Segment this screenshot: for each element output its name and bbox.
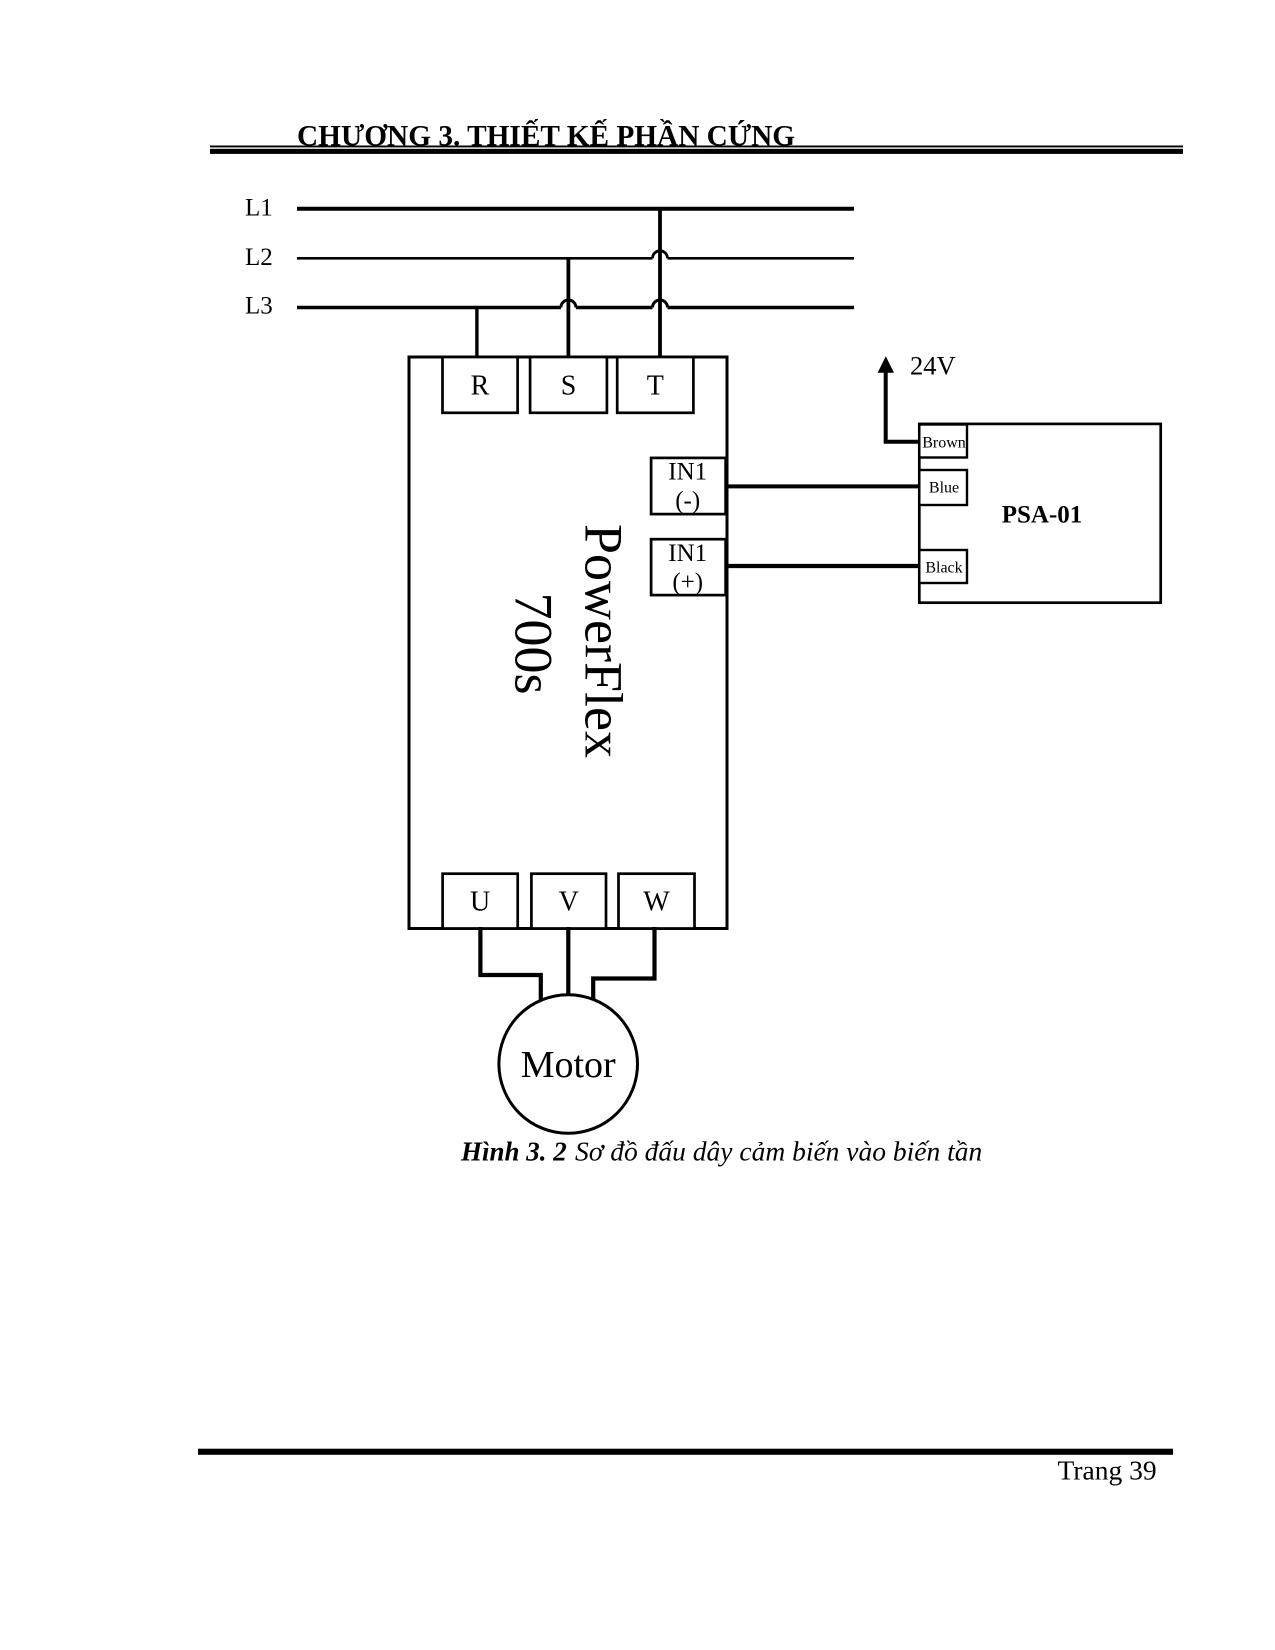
sensor PSA-01 box <box>919 424 1160 603</box>
wire L1 power line <box>297 207 854 211</box>
svg-text:L3: L3 <box>245 292 273 319</box>
wire V to motor <box>566 927 570 1000</box>
svg-text:R: R <box>471 370 490 401</box>
power 24V arrow head <box>878 356 894 373</box>
terminal IN1(-) box <box>651 458 726 514</box>
svg-text:L1: L1 <box>245 195 273 222</box>
svg-text:T: T <box>647 370 664 401</box>
svg-text:W: W <box>643 886 670 917</box>
terminal V box <box>531 874 606 929</box>
svg-text:V: V <box>559 886 579 917</box>
header thin rule <box>210 146 1183 148</box>
inverter U1 PowerFlex 700s outline <box>409 357 727 929</box>
svg-text:700s: 700s <box>504 593 564 695</box>
hop arc L2 over T wire <box>653 251 668 259</box>
wire L3 power line (gaps with hops at x=568.4 and x=660) <box>297 306 854 310</box>
footer rule <box>198 1449 1173 1455</box>
terminal U box <box>443 874 518 929</box>
svg-text:IN1: IN1 <box>668 540 707 567</box>
wire 24V to Brown terminal <box>884 440 920 444</box>
terminal W box <box>619 874 695 929</box>
hop arc L3 over S wire <box>561 300 576 307</box>
wire W to motor <box>593 927 654 1007</box>
svg-text:Brown: Brown <box>922 435 966 452</box>
terminal Blue box <box>919 470 967 505</box>
wire L2 power line (gap with hop at x=660) <box>297 257 854 260</box>
svg-text:L2: L2 <box>245 244 273 271</box>
wire IN1(-) to Blue <box>725 484 919 488</box>
terminal R box <box>443 357 518 413</box>
wire from L1 to terminal T <box>658 209 662 362</box>
terminal IN1(+) box <box>651 539 726 595</box>
wire U to motor <box>480 927 540 1003</box>
svg-text:U: U <box>470 886 490 917</box>
svg-text:(-): (-) <box>675 488 700 515</box>
svg-text:IN1: IN1 <box>668 459 707 486</box>
svg-text:PSA-01: PSA-01 <box>1002 502 1083 529</box>
svg-text:PowerFlex: PowerFlex <box>574 524 634 758</box>
wire IN1(+) to Black <box>725 564 919 568</box>
svg-text:Motor: Motor <box>521 1044 616 1086</box>
svg-text:Hình 3. 2: Hình 3. 2 <box>460 1136 567 1166</box>
wire from L2 to terminal S <box>567 258 571 361</box>
svg-text:24V: 24V <box>910 351 956 381</box>
svg-text:Black: Black <box>925 560 962 577</box>
svg-text:(+): (+) <box>672 569 703 596</box>
terminal T box <box>617 357 693 413</box>
motor M1 circle <box>499 995 638 1134</box>
terminal S box <box>530 357 607 413</box>
header thick rule <box>210 149 1183 154</box>
svg-text:Sơ đồ đấu dây cảm biến vào biế: Sơ đồ đấu dây cảm biến vào biến tần <box>575 1135 982 1166</box>
svg-text:Trang 39: Trang 39 <box>1058 1454 1157 1485</box>
hop arc L3 over T wire <box>653 300 668 307</box>
svg-text:Blue: Blue <box>929 480 959 497</box>
svg-text:S: S <box>561 370 577 401</box>
terminal Brown box <box>919 425 967 458</box>
wire from L3 to terminal R <box>475 308 478 362</box>
terminal Black box <box>919 550 967 583</box>
power 24V arrow shaft <box>884 372 888 442</box>
